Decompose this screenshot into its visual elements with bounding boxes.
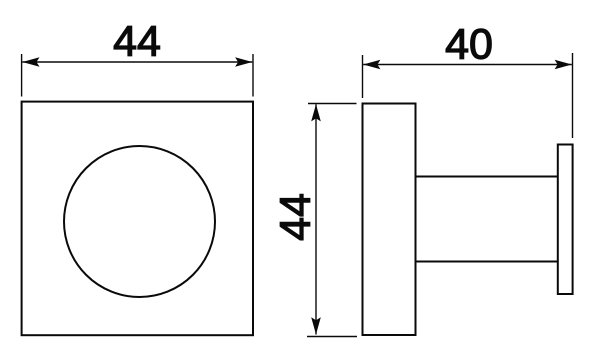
front circle [64, 146, 215, 297]
stem top line [415, 176, 559, 178]
depth dim extension line left [362, 55, 364, 98]
width dim extension line right [252, 54, 254, 97]
depth dim extension line right [572, 53, 574, 138]
svg-text:44: 44 [113, 18, 161, 66]
height dim extension line bottom [307, 336, 357, 338]
height dim arrow bottom [311, 317, 321, 334]
width dim line 44 [22, 61, 252, 63]
depth dim arrow right [555, 60, 572, 70]
depth dim line 40 [363, 64, 572, 66]
depth dim arrow left [363, 60, 380, 70]
svg-text:44: 44 [272, 193, 320, 241]
height dim line 44 [315, 104, 317, 334]
flange plate [558, 145, 573, 295]
stem bottom line [415, 261, 559, 263]
svg-text:40: 40 [445, 21, 493, 69]
width dim extension line left [21, 54, 23, 97]
width dim arrow right [235, 57, 252, 67]
height dim extension line top [308, 103, 357, 105]
height dim arrow top [311, 104, 321, 121]
width dim arrow left [22, 57, 39, 67]
side body rectangle [363, 104, 416, 336]
front plate square [22, 102, 253, 336]
